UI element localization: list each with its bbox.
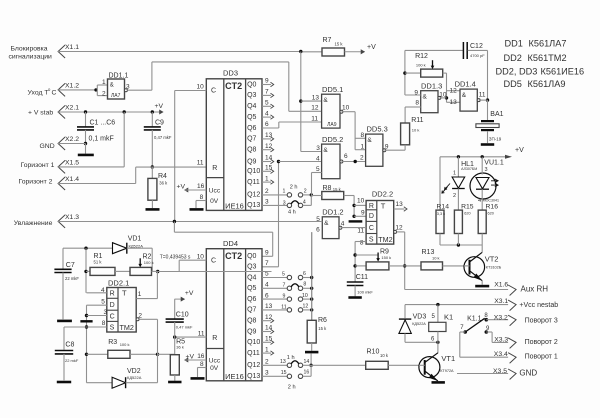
svg-text:R8: R8 xyxy=(323,185,332,192)
svg-text:Q6: Q6 xyxy=(247,296,256,303)
svg-text:8: 8 xyxy=(102,320,106,327)
svg-text:10: 10 xyxy=(357,198,365,205)
svg-text:DD5: DD5 xyxy=(504,79,522,89)
svg-text:1: 1 xyxy=(265,175,269,182)
svg-text:16: 16 xyxy=(304,370,310,376)
svg-text:Q7: Q7 xyxy=(247,136,256,143)
svg-text:36 k: 36 k xyxy=(159,181,168,186)
svg-text:Aux RH: Aux RH xyxy=(521,285,549,294)
svg-text:+Vcc nestab: +Vcc nestab xyxy=(519,302,558,309)
svg-text:КД522А: КД522А xyxy=(412,322,426,326)
svg-text:X2.1: X2.1 xyxy=(65,105,79,112)
svg-text:R6: R6 xyxy=(318,317,327,324)
svg-text:C: C xyxy=(211,88,216,95)
svg-text:X3.3: X3.3 xyxy=(494,336,508,343)
svg-text:6: 6 xyxy=(316,227,320,234)
svg-text:R11: R11 xyxy=(411,117,423,124)
svg-text:Q4: Q4 xyxy=(247,103,256,110)
svg-text:R14: R14 xyxy=(437,204,450,211)
svg-text:11: 11 xyxy=(357,228,364,235)
svg-text:3: 3 xyxy=(265,199,269,206)
svg-text:0,1 mkF: 0,1 mkF xyxy=(89,135,114,142)
svg-text:DD1: DD1 xyxy=(505,39,523,49)
svg-text:Q4: Q4 xyxy=(247,274,256,281)
svg-text:6: 6 xyxy=(265,292,269,299)
svg-text:Q6: Q6 xyxy=(247,125,256,132)
svg-text:R7: R7 xyxy=(323,37,332,44)
svg-text:100 mkF: 100 mkF xyxy=(357,290,373,295)
svg-text:9: 9 xyxy=(361,209,365,216)
svg-text:C9: C9 xyxy=(155,120,164,127)
svg-text:11: 11 xyxy=(197,160,204,167)
svg-text:R: R xyxy=(212,335,217,342)
svg-text:C: C xyxy=(110,313,115,320)
svg-text:14: 14 xyxy=(265,155,273,162)
svg-text:12: 12 xyxy=(265,314,273,321)
svg-text:GND: GND xyxy=(519,368,537,377)
svg-text:CT2: CT2 xyxy=(225,251,242,261)
svg-text:T: T xyxy=(122,289,127,298)
svg-text:1: 1 xyxy=(102,79,106,86)
svg-text:Блокировка: Блокировка xyxy=(11,46,48,53)
svg-text:15: 15 xyxy=(281,370,287,376)
svg-text:Q13: Q13 xyxy=(247,373,260,380)
svg-text:15: 15 xyxy=(265,336,273,343)
svg-text:R15: R15 xyxy=(461,204,474,211)
svg-text:4 h: 4 h xyxy=(288,210,296,216)
svg-text:Q0: Q0 xyxy=(247,253,256,260)
svg-text:12: 12 xyxy=(450,87,458,94)
svg-text:15 k: 15 k xyxy=(333,187,342,192)
svg-text:8: 8 xyxy=(360,239,364,246)
svg-text:Q7: Q7 xyxy=(247,307,256,314)
svg-text:&: & xyxy=(110,83,114,89)
svg-text:22 mkF: 22 mkF xyxy=(65,358,79,363)
svg-text:7: 7 xyxy=(265,89,269,96)
svg-text:Увлажнение: Увлажнение xyxy=(14,220,53,227)
svg-text:TM2: TM2 xyxy=(120,323,134,332)
svg-text:3: 3 xyxy=(485,167,488,173)
svg-text:VT2: VT2 xyxy=(485,254,499,263)
svg-text:8: 8 xyxy=(415,100,419,107)
svg-text:2: 2 xyxy=(265,359,269,366)
svg-text:X3.2: X3.2 xyxy=(494,315,508,322)
svg-text:0,47 mkF: 0,47 mkF xyxy=(176,325,193,330)
svg-text:D: D xyxy=(110,302,115,309)
svg-text:C7: C7 xyxy=(66,262,75,269)
svg-text:VD3: VD3 xyxy=(413,314,427,321)
svg-text:C1 ...C6: C1 ...C6 xyxy=(90,120,116,127)
svg-text:КТ3102Б: КТ3102Б xyxy=(486,266,502,270)
svg-text:14: 14 xyxy=(304,359,310,365)
svg-text:ИЕ16: ИЕ16 xyxy=(225,372,244,381)
svg-text:1 h: 1 h xyxy=(287,355,295,361)
svg-text:2 h: 2 h xyxy=(290,185,298,191)
svg-text:Горизонт 2: Горизонт 2 xyxy=(19,179,53,186)
svg-text:&: & xyxy=(462,92,467,99)
svg-text:4: 4 xyxy=(303,200,306,206)
svg-text:10 k: 10 k xyxy=(412,127,420,132)
svg-text:+V: +V xyxy=(367,44,376,51)
svg-text:К561ИЕ16: К561ИЕ16 xyxy=(541,67,585,77)
svg-text:X1.6: X1.6 xyxy=(494,281,508,288)
svg-text:5: 5 xyxy=(316,166,320,173)
svg-text:DD1.2: DD1.2 xyxy=(322,208,343,217)
svg-text:36 k: 36 k xyxy=(176,344,184,349)
svg-text:14: 14 xyxy=(265,325,273,332)
svg-text:13: 13 xyxy=(280,359,286,365)
svg-text:100 k: 100 k xyxy=(416,63,426,68)
svg-text:+V: +V xyxy=(515,147,524,154)
svg-text:&: & xyxy=(323,147,328,154)
svg-text:+V: +V xyxy=(186,354,195,361)
svg-text:Q12: Q12 xyxy=(247,362,260,369)
svg-text:R16: R16 xyxy=(486,204,499,211)
svg-text:5: 5 xyxy=(265,100,269,107)
svg-text:8: 8 xyxy=(200,194,204,201)
svg-text:13: 13 xyxy=(265,132,273,139)
svg-text:R: R xyxy=(212,165,217,172)
svg-text:9: 9 xyxy=(385,143,389,150)
svg-text:13: 13 xyxy=(450,99,458,106)
svg-text:9: 9 xyxy=(283,294,286,300)
svg-text:сигнализации: сигнализации xyxy=(9,54,53,61)
svg-text:13: 13 xyxy=(312,95,320,102)
svg-text:6: 6 xyxy=(344,153,348,160)
svg-text:Ucc: Ucc xyxy=(209,357,221,364)
svg-text:R4: R4 xyxy=(158,173,167,180)
svg-text:6: 6 xyxy=(303,271,306,277)
svg-text:Q11: Q11 xyxy=(247,350,260,357)
svg-text:ЛА7: ЛА7 xyxy=(111,93,121,99)
svg-text:КД522А: КД522А xyxy=(127,375,142,380)
svg-text:DD2: DD2 xyxy=(504,53,522,63)
svg-text:VD2: VD2 xyxy=(127,368,141,375)
svg-text:3: 3 xyxy=(316,145,320,152)
svg-text:R: R xyxy=(369,203,374,210)
svg-text:2: 2 xyxy=(265,188,269,195)
svg-text:K1: K1 xyxy=(444,313,453,322)
svg-text:5: 5 xyxy=(101,299,105,306)
svg-text:2: 2 xyxy=(360,155,364,162)
svg-text:3,3 k: 3,3 k xyxy=(437,212,445,216)
svg-text:13: 13 xyxy=(396,201,404,208)
svg-text:15 k: 15 k xyxy=(318,326,327,331)
svg-text:6: 6 xyxy=(265,121,269,128)
svg-text:C: C xyxy=(369,225,374,232)
svg-text:Поворот 1: Поворот 1 xyxy=(525,354,558,361)
svg-text:4: 4 xyxy=(265,282,269,289)
svg-text:D: D xyxy=(369,213,374,220)
svg-text:5: 5 xyxy=(282,272,285,278)
svg-text:&: & xyxy=(323,97,328,104)
svg-text:Горизонт 1: Горизонт 1 xyxy=(21,162,55,169)
svg-text:4: 4 xyxy=(478,198,481,204)
svg-text:10: 10 xyxy=(342,105,350,112)
svg-text:DD5.3: DD5.3 xyxy=(367,125,388,134)
svg-text:Q5: Q5 xyxy=(247,114,256,121)
svg-text:4700 pF: 4700 pF xyxy=(470,53,485,58)
svg-text:BA1: BA1 xyxy=(490,111,503,118)
svg-text:DD1.3: DD1.3 xyxy=(421,82,442,91)
svg-text:8: 8 xyxy=(200,361,204,368)
svg-text:2 h: 2 h xyxy=(288,384,296,390)
svg-text:Q13: Q13 xyxy=(247,202,260,209)
svg-text:C10: C10 xyxy=(176,312,189,319)
svg-text:C11: C11 xyxy=(356,274,368,281)
svg-text:&: & xyxy=(367,137,372,144)
svg-text:Поворот 3: Поворот 3 xyxy=(525,317,558,324)
svg-text:Q3: Q3 xyxy=(247,264,256,271)
svg-text:620: 620 xyxy=(488,212,494,216)
svg-text:DD5.2: DD5.2 xyxy=(322,135,343,144)
svg-text:Q3: Q3 xyxy=(247,92,256,99)
svg-text:Q11: Q11 xyxy=(247,179,260,186)
svg-text:DD2.1: DD2.1 xyxy=(108,279,129,288)
svg-text:Уход Т: Уход Т xyxy=(28,90,49,97)
svg-text:11: 11 xyxy=(311,115,318,122)
svg-text:МОС3041: МОС3041 xyxy=(483,198,499,202)
svg-text:DD5.1: DD5.1 xyxy=(322,85,343,94)
svg-text:2: 2 xyxy=(102,91,106,98)
svg-text:С: С xyxy=(52,90,57,97)
svg-text:R3: R3 xyxy=(108,339,117,346)
svg-text:X3.5: X3.5 xyxy=(493,368,507,375)
svg-text:150 k: 150 k xyxy=(381,255,391,260)
svg-text:12: 12 xyxy=(265,143,273,150)
svg-text:+V: +V xyxy=(185,290,194,297)
svg-text:3: 3 xyxy=(283,201,286,207)
svg-text:15 k: 15 k xyxy=(335,42,344,47)
svg-text:0,47 mkF: 0,47 mkF xyxy=(154,135,172,140)
svg-text:АЛ307БМ: АЛ307БМ xyxy=(461,167,477,171)
svg-text:X1.3: X1.3 xyxy=(65,214,79,221)
svg-text:T: T xyxy=(381,202,386,211)
svg-text:7: 7 xyxy=(265,260,269,267)
svg-text:1: 1 xyxy=(361,144,365,151)
svg-text:DD4: DD4 xyxy=(223,239,238,248)
svg-text:X3.4: X3.4 xyxy=(494,351,508,358)
svg-text:Q12: Q12 xyxy=(247,192,260,199)
svg-text:Поворот 2: Поворот 2 xyxy=(525,339,558,346)
svg-text:Q8: Q8 xyxy=(247,147,256,154)
svg-text:DD1.4: DD1.4 xyxy=(455,80,476,89)
svg-text:R10: R10 xyxy=(367,348,380,355)
svg-text:К561ЛА9: К561ЛА9 xyxy=(528,79,566,89)
svg-text:9: 9 xyxy=(265,250,269,257)
svg-text:1: 1 xyxy=(265,346,269,353)
svg-text:10 k: 10 k xyxy=(380,353,389,358)
svg-text:+V: +V xyxy=(177,184,186,191)
svg-text:CT2: CT2 xyxy=(225,81,242,91)
svg-text:Q5: Q5 xyxy=(247,285,256,292)
svg-text:8: 8 xyxy=(303,282,306,288)
svg-text:S: S xyxy=(110,324,115,331)
svg-text:1: 1 xyxy=(453,171,456,177)
svg-text:X1.1: X1.1 xyxy=(65,44,79,51)
svg-text:GND: GND xyxy=(40,143,55,150)
svg-text:100 k: 100 k xyxy=(120,342,130,347)
svg-text:1: 1 xyxy=(138,291,142,298)
svg-text:620: 620 xyxy=(464,212,470,216)
svg-text:11: 11 xyxy=(479,91,486,98)
svg-text:VU1.1: VU1.1 xyxy=(484,159,504,166)
svg-text:0V: 0V xyxy=(210,198,219,205)
svg-text:TM2: TM2 xyxy=(378,235,392,244)
svg-text:4: 4 xyxy=(341,220,345,227)
svg-text:0V: 0V xyxy=(210,365,219,372)
svg-text:C: C xyxy=(211,257,216,264)
svg-text:X1.2: X1.2 xyxy=(65,82,79,89)
svg-text:ИЕ16: ИЕ16 xyxy=(225,201,244,210)
svg-text:X1.5: X1.5 xyxy=(65,159,79,166)
svg-text:12: 12 xyxy=(311,105,319,112)
svg-text:Q8: Q8 xyxy=(247,318,256,325)
svg-text:ЗП-19: ЗП-19 xyxy=(489,136,502,141)
svg-text:+V: +V xyxy=(155,103,164,110)
svg-text:DD3: DD3 xyxy=(223,69,238,78)
svg-text:1: 1 xyxy=(283,189,286,195)
svg-text:DD2, DD3: DD2, DD3 xyxy=(496,67,538,77)
svg-text:К561ЛА7: К561ЛА7 xyxy=(529,39,567,49)
svg-text:10: 10 xyxy=(302,293,308,299)
svg-text:Q9: Q9 xyxy=(247,158,256,165)
svg-text:ЛА9: ЛА9 xyxy=(327,122,337,128)
svg-text:13: 13 xyxy=(265,303,273,310)
svg-text:7: 7 xyxy=(283,283,286,289)
svg-text:C12: C12 xyxy=(470,43,483,50)
svg-text:2: 2 xyxy=(304,189,307,195)
svg-text:VT1: VT1 xyxy=(441,354,455,363)
svg-text:11: 11 xyxy=(281,304,286,310)
svg-text:10 k: 10 k xyxy=(432,255,440,260)
svg-text:X2.2: X2.2 xyxy=(65,136,79,143)
svg-text:16: 16 xyxy=(197,183,205,190)
svg-text:DD2.2: DD2.2 xyxy=(372,190,393,199)
svg-text:4: 4 xyxy=(316,155,320,162)
svg-text:12: 12 xyxy=(303,304,309,310)
svg-text:Q0: Q0 xyxy=(247,81,256,88)
svg-text:22 mkF: 22 mkF xyxy=(65,276,79,281)
svg-text:8: 8 xyxy=(361,132,365,139)
svg-text:X1.4: X1.4 xyxy=(65,176,79,183)
svg-text:Q10: Q10 xyxy=(247,339,260,346)
svg-text:КТ972А: КТ972А xyxy=(440,369,454,373)
svg-text:К561ТМ2: К561ТМ2 xyxy=(528,53,567,63)
svg-text:X3.1: X3.1 xyxy=(494,298,508,305)
svg-text:16: 16 xyxy=(197,353,205,360)
svg-text:Q9: Q9 xyxy=(247,328,256,335)
svg-text:Q10: Q10 xyxy=(247,168,260,175)
svg-text:Ucc: Ucc xyxy=(209,187,221,194)
svg-text:2: 2 xyxy=(453,193,456,199)
svg-text:DD1.1: DD1.1 xyxy=(109,73,129,80)
svg-text:+ V stab: + V stab xyxy=(28,110,53,117)
svg-text:100 k: 100 k xyxy=(144,260,154,265)
svg-text:3: 3 xyxy=(265,370,269,377)
svg-text:&: & xyxy=(423,94,428,101)
svg-text:&: & xyxy=(324,220,329,227)
svg-text:9: 9 xyxy=(265,78,269,85)
svg-text:C8: C8 xyxy=(65,342,74,349)
svg-text:R12: R12 xyxy=(415,53,428,60)
svg-text:4: 4 xyxy=(265,110,269,117)
svg-text:10: 10 xyxy=(197,84,205,91)
svg-text:R: R xyxy=(110,291,115,298)
svg-text:VD1: VD1 xyxy=(128,236,142,243)
svg-text:15: 15 xyxy=(265,165,273,172)
svg-text:51 k: 51 k xyxy=(94,260,103,265)
svg-text:S: S xyxy=(369,236,374,243)
